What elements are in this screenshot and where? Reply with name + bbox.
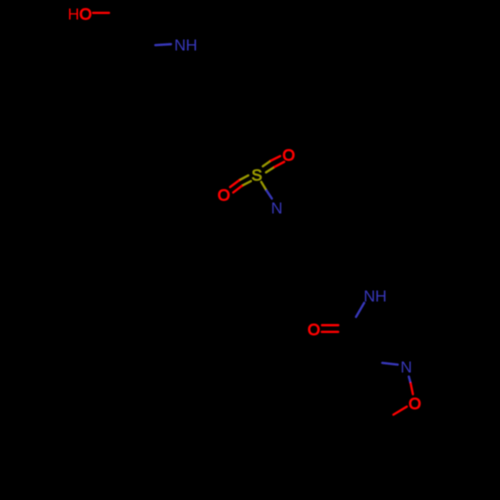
svg-text:NH: NH — [174, 38, 197, 55]
svg-text:O: O — [218, 188, 230, 205]
svg-text:O: O — [409, 396, 421, 413]
svg-text:N: N — [271, 200, 283, 217]
svg-text:O: O — [282, 148, 294, 165]
svg-text:N: N — [401, 359, 413, 376]
svg-text:HO: HO — [68, 6, 92, 23]
svg-text:O: O — [308, 322, 320, 339]
svg-text:S: S — [251, 167, 262, 184]
svg-text:NH: NH — [364, 289, 387, 306]
